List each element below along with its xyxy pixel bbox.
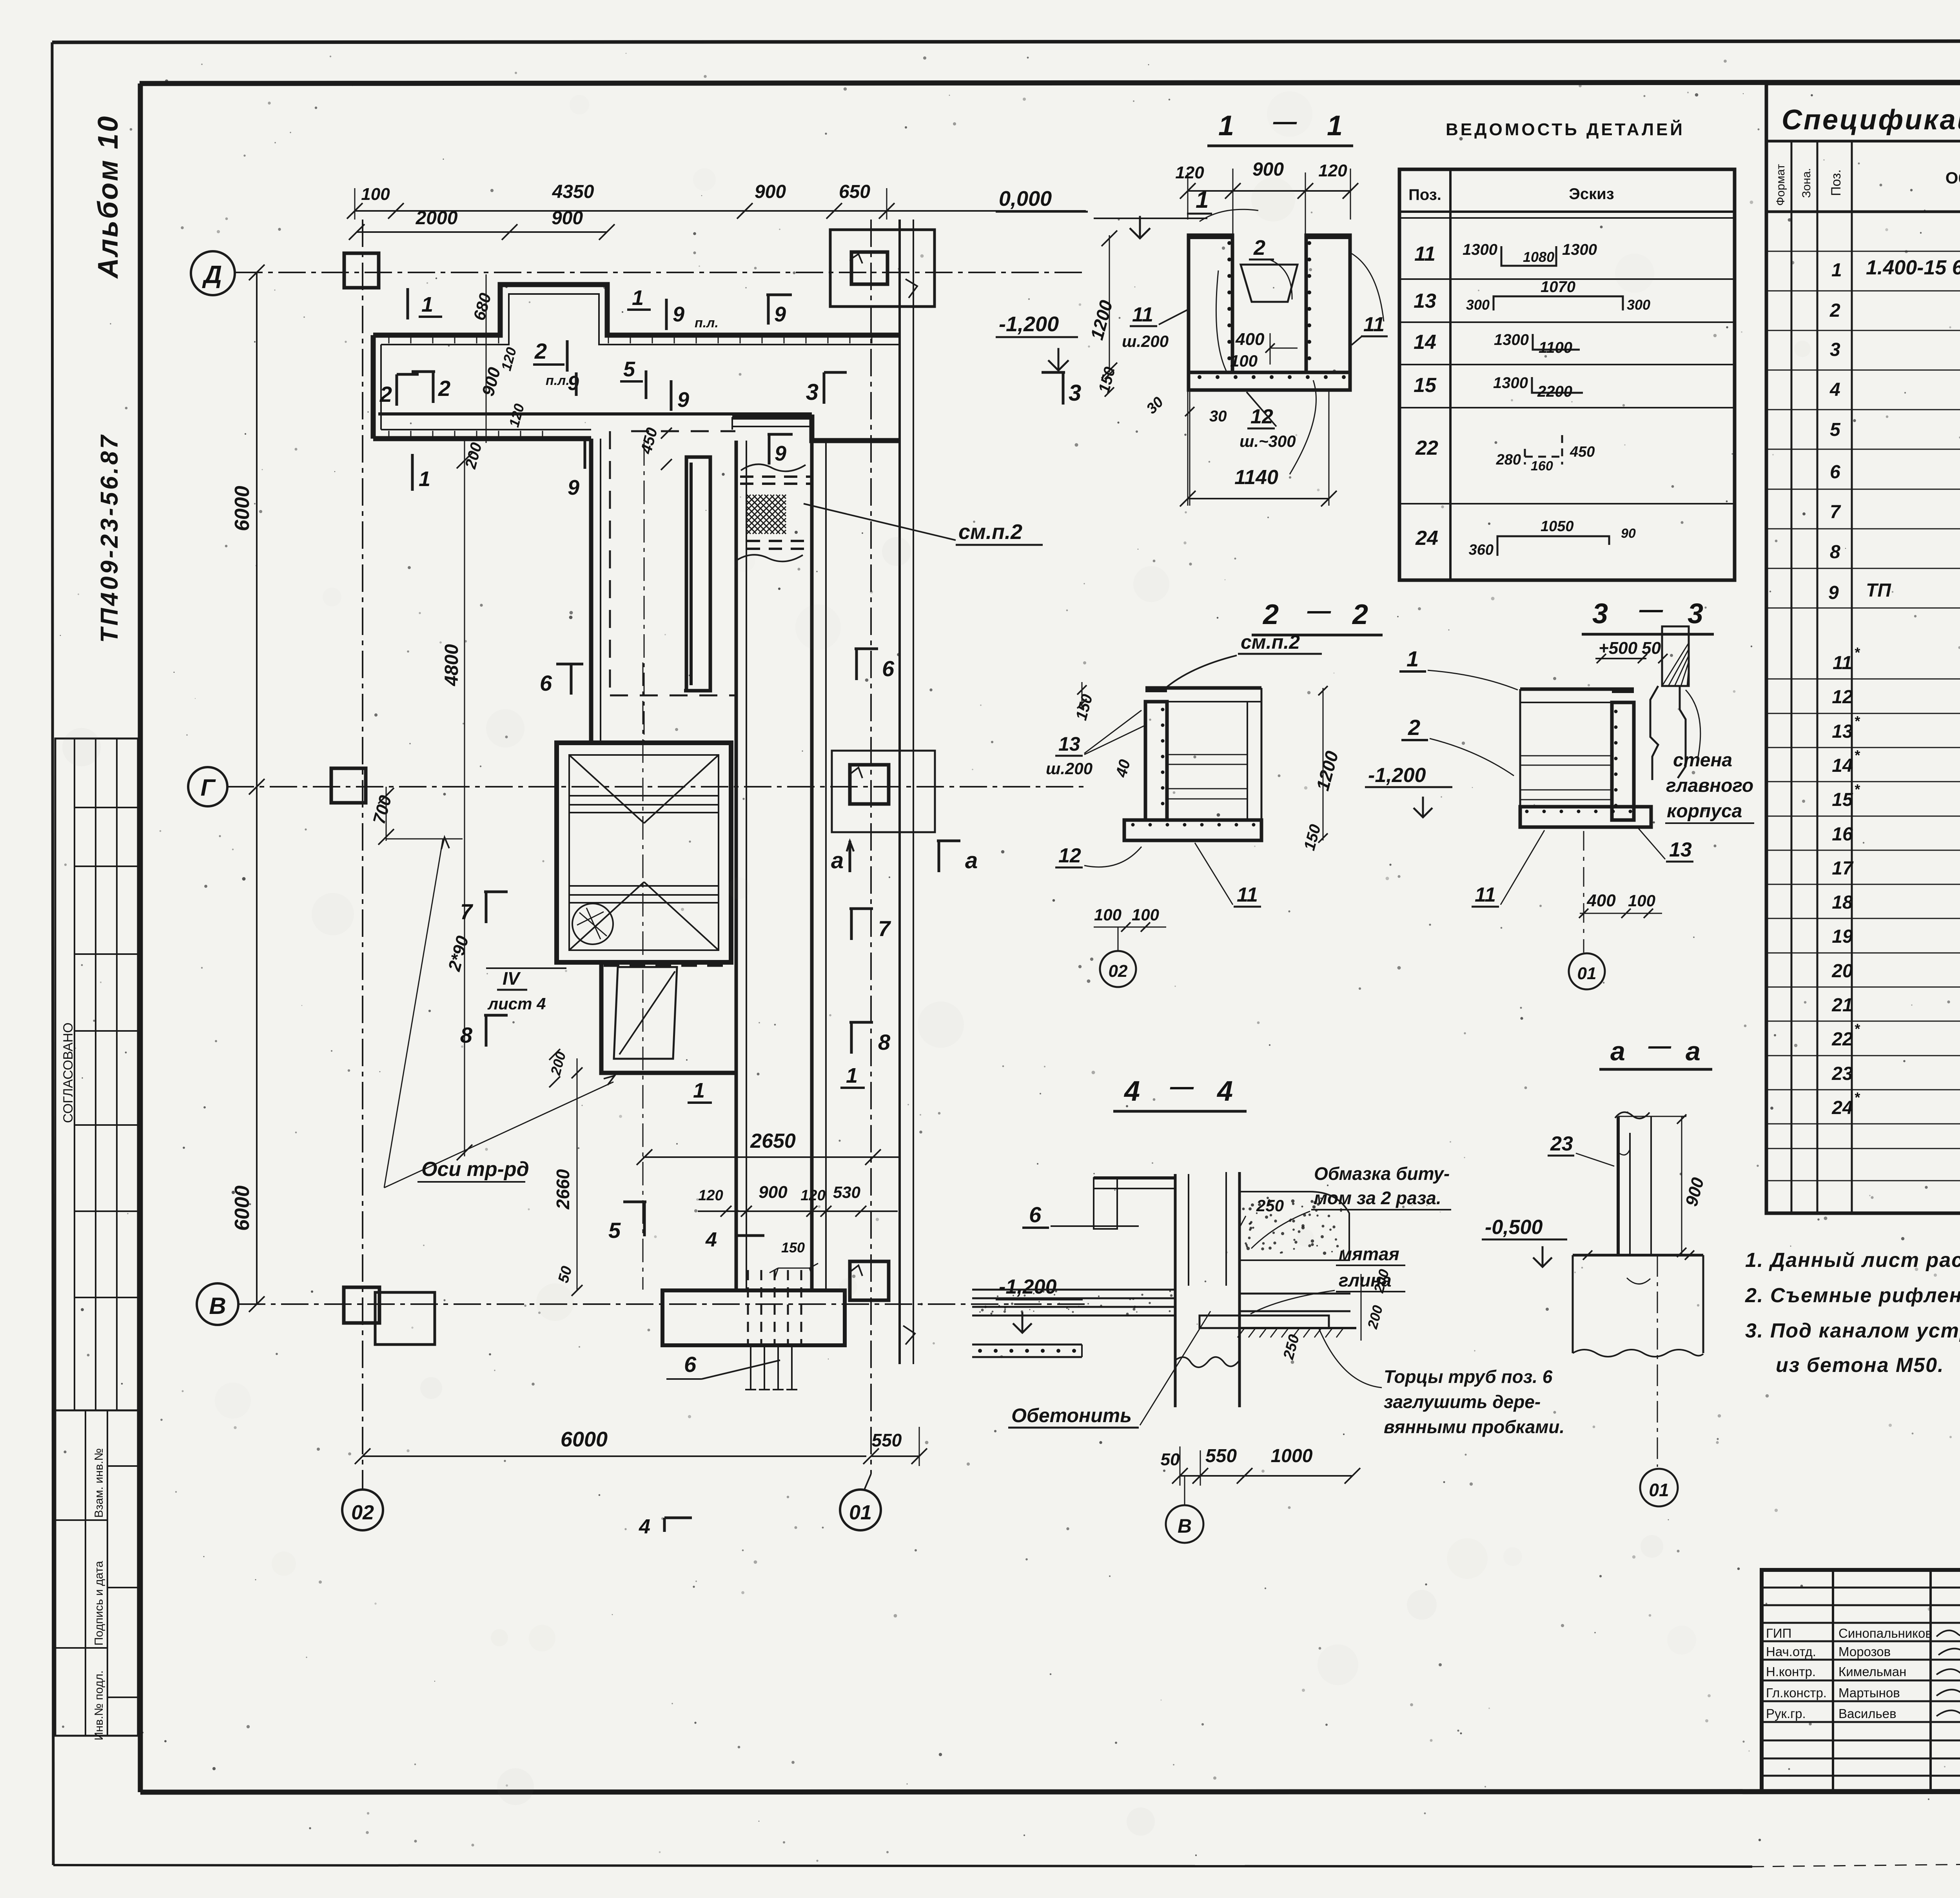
svg-text:8: 8 — [878, 1030, 891, 1054]
svg-text:4350: 4350 — [552, 181, 594, 202]
svg-text:2. Съемные рифленые щиты ра: 2. Съемные рифленые щиты разработаны в ч… — [1745, 1284, 1960, 1307]
flag 9 right below arm — [768, 434, 771, 465]
plan: grid circle 02 — [342, 1490, 383, 1530]
svg-text:*: * — [1854, 644, 1860, 660]
svg-text:см.п.2: см.п.2 — [1241, 631, 1300, 653]
svg-text:100: 100 — [1094, 905, 1122, 924]
svg-text:11: 11 — [1363, 313, 1385, 336]
svg-text:120: 120 — [506, 402, 527, 429]
svg-text:120: 120 — [1175, 163, 1204, 182]
plan: transformer box outer — [557, 743, 731, 962]
svg-text:23: 23 — [1550, 1132, 1573, 1155]
svg-text:*: * — [1854, 781, 1860, 797]
plan: bottom pipe block — [662, 1290, 845, 1345]
signatures squiggles — [1936, 1624, 1960, 1637]
svg-text:22: 22 — [1415, 437, 1438, 459]
plan: transformer diagonals — [569, 755, 644, 823]
svg-text:15: 15 — [1832, 789, 1853, 810]
svg-text:01: 01 — [849, 1501, 872, 1524]
svg-text:23: 23 — [1831, 1063, 1853, 1084]
svg-text:12: 12 — [1058, 844, 1081, 867]
plan: axis circle Г — [188, 767, 227, 806]
svg-text:a: a — [965, 848, 978, 873]
svg-text:50: 50 — [555, 1265, 575, 1285]
plan: channel left end cap — [371, 335, 376, 439]
svg-text:900: 900 — [1252, 159, 1284, 180]
plan: top wall rebar ticks — [388, 336, 390, 343]
svg-text:1: 1 — [846, 1064, 858, 1087]
plan: flag 4 bottom — [664, 1518, 692, 1532]
sidebar stamp table (Инв № подл / Подпись и дата / Взам инв №) — [55, 1410, 138, 1736]
svg-text:Инв.№ подл.: Инв.№ подл. — [93, 1670, 105, 1740]
plan: pit at Г/01 (dashed) — [832, 751, 935, 832]
svg-text:Обмазка биту-: Обмазка биту- — [1314, 1163, 1450, 1184]
plan: grid circle 01 — [840, 1490, 881, 1530]
svg-text:см.п.2: см.п.2 — [958, 520, 1022, 544]
svg-text:Обетонить: Обетонить — [1011, 1404, 1132, 1426]
svg-text:Поз.: Поз. — [1408, 186, 1441, 203]
svg-text:2200: 2200 — [1537, 383, 1572, 400]
svg-text:6: 6 — [1830, 462, 1840, 483]
svg-text:50: 50 — [1161, 1450, 1180, 1469]
svg-text:—: — — [1648, 1033, 1671, 1059]
section 4-4: top slab left — [1094, 1176, 1175, 1179]
svg-text:-1,200: -1,200 — [1368, 764, 1426, 787]
svg-text:4800: 4800 — [441, 644, 462, 686]
svg-text:6000: 6000 — [231, 1185, 254, 1231]
svg-text:19: 19 — [1832, 926, 1853, 947]
svg-text:Н.контр.: Н.контр. — [1766, 1664, 1816, 1679]
svg-text:9: 9 — [568, 476, 579, 499]
svg-text:01: 01 — [1649, 1480, 1669, 1500]
svg-text:360: 360 — [1469, 542, 1494, 558]
flag T2 inside — [432, 372, 435, 403]
svg-text:8: 8 — [460, 1023, 473, 1047]
section 2-2 body — [1145, 686, 1261, 690]
plan: transformer box inner — [569, 755, 719, 950]
svg-text:4: 4 — [639, 1515, 650, 1538]
flag 9 п.л. — [665, 299, 668, 330]
svg-text:стена: стена — [1673, 750, 1732, 771]
svg-text:21: 21 — [1831, 995, 1853, 1016]
svg-text:*: * — [1854, 747, 1860, 763]
flag 9 below arm — [584, 438, 586, 469]
svg-text:6: 6 — [540, 671, 552, 695]
svg-text:300: 300 — [1466, 297, 1490, 313]
svg-text:900: 900 — [478, 365, 504, 398]
svg-text:2650: 2650 — [750, 1130, 796, 1152]
svg-text:3: 3 — [1830, 339, 1840, 360]
svg-text:2000: 2000 — [416, 208, 458, 229]
svg-text:1: 1 — [632, 286, 644, 310]
svg-text:11: 11 — [1833, 653, 1852, 673]
spec header row — [1766, 210, 1960, 213]
svg-text:11: 11 — [1132, 303, 1153, 326]
svg-text:550: 550 — [872, 1430, 902, 1450]
section 1-1: U channel walls — [1189, 235, 1232, 372]
section a-a: tiny ticks on foundation top — [1583, 1250, 1592, 1260]
flag 8 left — [485, 1015, 488, 1047]
svg-text:ш.200: ш.200 — [1046, 759, 1093, 778]
plan: pipe stubs below — [745, 1345, 756, 1390]
svg-text:Оси тр-рд: Оси тр-рд — [421, 1158, 529, 1181]
svg-text:2: 2 — [1829, 300, 1840, 321]
svg-text:200: 200 — [547, 1050, 569, 1077]
svg-text:-0,500: -0,500 — [1485, 1216, 1543, 1239]
svg-text:4: 4 — [1216, 1076, 1233, 1107]
svg-text:Г: Г — [201, 775, 216, 801]
svg-text:40: 40 — [1112, 758, 1134, 779]
plan: building wall double line — [898, 220, 901, 1364]
section 3-3 hatched wall — [1662, 626, 1689, 686]
flag 7 left — [485, 892, 488, 923]
plan: column square top right — [851, 252, 887, 284]
svg-text:7: 7 — [1830, 502, 1841, 523]
plan: vertical axis line 02 — [362, 220, 363, 1474]
svg-text:1100: 1100 — [1539, 339, 1572, 356]
plan dim 4800 — [464, 439, 465, 1156]
svg-text:п.л.: п.л. — [546, 373, 570, 388]
section 3-3 circle 01 — [1569, 953, 1605, 989]
plan: long channel left wall — [735, 441, 738, 1290]
svg-text:120: 120 — [800, 1187, 825, 1204]
plan: slab with diagonal — [614, 967, 677, 1059]
svg-text:заглушить дере-: заглушить дере- — [1384, 1392, 1541, 1412]
svg-text:главного: главного — [1666, 775, 1753, 796]
svg-text:1300: 1300 — [1493, 374, 1528, 392]
svg-text:2: 2 — [534, 339, 547, 363]
flag T7 right — [850, 909, 853, 940]
svg-text:Синопальников: Синопальников — [1838, 1626, 1932, 1640]
svg-text:6000: 6000 — [561, 1428, 608, 1451]
svg-text:3: 3 — [1688, 598, 1703, 630]
svg-text:Эскиз: Эскиз — [1569, 185, 1614, 203]
svg-text:Васильев: Васильев — [1838, 1706, 1896, 1721]
svg-text:Взам. инв.№: Взам. инв.№ — [93, 1448, 105, 1518]
svg-text:Формат: Формат — [1774, 164, 1787, 206]
svg-text:2: 2 — [1352, 599, 1368, 630]
svg-text:1000: 1000 — [1271, 1446, 1313, 1466]
svg-text:*: * — [1854, 713, 1860, 729]
svg-text:1: 1 — [693, 1079, 705, 1102]
svg-text:280: 280 — [1496, 452, 1521, 468]
plan: wavy break line — [741, 464, 806, 471]
svg-text:17: 17 — [1832, 858, 1854, 879]
svg-text:300: 300 — [1627, 297, 1650, 313]
plan: pipes (dashed) — [747, 1270, 749, 1345]
svg-text:Торцы труб поз. 6: Торцы труб поз. 6 — [1384, 1366, 1553, 1387]
vedomost table frame — [1399, 169, 1735, 580]
svg-text:-1,200: -1,200 — [999, 312, 1059, 336]
section a-a: dim 900 — [1681, 1116, 1682, 1254]
plan: axis Г — [227, 786, 1086, 788]
svg-text:1080: 1080 — [1523, 249, 1554, 265]
svg-text:9: 9 — [774, 303, 786, 326]
svg-text:В: В — [209, 1293, 226, 1319]
svg-text:лист 4: лист 4 — [487, 994, 546, 1013]
svg-text:150: 150 — [1073, 692, 1096, 722]
flag T6 right — [855, 649, 858, 680]
svg-text:0,000: 0,000 — [999, 187, 1052, 210]
svg-text:200: 200 — [1364, 1303, 1386, 1331]
svg-text:a: a — [1686, 1036, 1700, 1066]
svg-text:100: 100 — [361, 185, 390, 204]
svg-text:1. Данный лист рассматриват: 1. Данный лист рассматривать совместно с… — [1745, 1249, 1960, 1272]
svg-text:9: 9 — [1828, 582, 1839, 603]
plan: channel top wall outer edge with notch — [373, 285, 899, 335]
svg-text:3: 3 — [1069, 380, 1081, 406]
svg-text:2: 2 — [379, 382, 392, 406]
svg-text:1140: 1140 — [1234, 466, 1278, 489]
svg-text:ТП: ТП — [1866, 580, 1891, 601]
svg-text:100: 100 — [1628, 891, 1655, 910]
svg-text:СОГЛАСОВАНО: СОГЛАСОВАНО — [61, 1023, 76, 1123]
svg-text:30: 30 — [1209, 408, 1227, 425]
svg-text:2: 2 — [1408, 715, 1420, 740]
section 4-4: left floor lines — [972, 1344, 1082, 1346]
svg-text:530: 530 — [833, 1183, 860, 1201]
svg-text:160: 160 — [1531, 459, 1553, 474]
sidebar approval table — [55, 739, 138, 1410]
svg-text:ТП409-23-56.87: ТП409-23-56.87 — [96, 433, 123, 643]
svg-text:2: 2 — [1262, 599, 1279, 630]
svg-text:1300: 1300 — [1494, 331, 1529, 348]
svg-text:1: 1 — [419, 467, 430, 491]
svg-text:16: 16 — [1832, 824, 1853, 845]
svg-text:120: 120 — [498, 345, 519, 372]
plan: channel inner bottom step edge — [378, 412, 812, 416]
svg-text:2: 2 — [438, 376, 450, 401]
inner drawing frame — [140, 82, 1960, 83]
plan bottom dim 6000 — [363, 1455, 866, 1457]
plan: channel bottom edge left part — [373, 436, 591, 441]
svg-text:7: 7 — [878, 916, 891, 941]
svg-text:—: — — [1307, 597, 1331, 624]
plan top dim row1 — [355, 210, 1086, 212]
svg-text:100: 100 — [1230, 352, 1258, 370]
svg-text:400: 400 — [1235, 330, 1265, 349]
plan: column square at Г/02 — [331, 768, 366, 803]
section 4-4 circle В — [1166, 1505, 1203, 1543]
svg-text:24: 24 — [1831, 1098, 1853, 1118]
svg-text:Зона.: Зона. — [1800, 168, 1813, 198]
svg-text:ш.200: ш.200 — [1122, 332, 1169, 350]
spec table outer — [1766, 83, 1960, 1213]
svg-text:450: 450 — [1570, 444, 1595, 460]
section 4-4: speckled concrete zone — [1240, 1192, 1349, 1260]
svg-text:IV: IV — [503, 968, 521, 989]
plan: axis Д horizontal dash-dot line — [235, 272, 1086, 273]
svg-text:1200: 1200 — [1086, 298, 1116, 342]
svg-text:13: 13 — [1414, 290, 1436, 312]
svg-text:5: 5 — [623, 357, 635, 381]
svg-text:650: 650 — [839, 181, 870, 202]
svg-text:01: 01 — [1577, 964, 1597, 983]
flag T8 right — [850, 1022, 853, 1054]
plan: hatch patch см.п.2 — [747, 495, 786, 534]
plan: column square Г/01 — [850, 765, 889, 804]
svg-text:Нач.отд.: Нач.отд. — [1766, 1644, 1816, 1659]
svg-text:6: 6 — [1029, 1202, 1042, 1227]
svg-text:150: 150 — [1301, 822, 1324, 852]
flag 6 left of transformer — [570, 664, 573, 695]
section 4-4: break squiggle on wall — [1175, 1357, 1240, 1367]
svg-text:900: 900 — [755, 181, 786, 202]
section 1-1: left dim 1200 — [1109, 235, 1110, 372]
plan: axis circle Д — [191, 251, 235, 295]
svg-text:13: 13 — [1058, 733, 1080, 755]
svg-text:120: 120 — [698, 1187, 723, 1204]
svg-text:корпуса: корпуса — [1667, 801, 1742, 822]
svg-text:1: 1 — [1327, 110, 1343, 142]
svg-text:1: 1 — [421, 293, 433, 316]
svg-text:8: 8 — [1830, 542, 1840, 563]
svg-text:Гл.констр.: Гл.констр. — [1766, 1686, 1827, 1700]
svg-text:3: 3 — [806, 379, 818, 405]
section 1-1: dim row 120 900 120 — [1188, 190, 1350, 192]
svg-text:1: 1 — [1196, 187, 1209, 213]
section 4-4: wall column — [1174, 1174, 1177, 1407]
svg-text:15: 15 — [1414, 374, 1437, 397]
svg-text:1300: 1300 — [1463, 241, 1497, 258]
plan: vertical axis line 01 — [870, 220, 872, 1474]
plan: centre channel left wall — [589, 439, 593, 743]
svg-text:вянными пробками.: вянными пробками. — [1384, 1417, 1564, 1437]
svg-text:Альбом 10: Альбом 10 — [93, 115, 124, 279]
flag T3 (wall side) — [1062, 372, 1065, 405]
svg-text:13: 13 — [1669, 838, 1692, 861]
svg-text:200: 200 — [462, 441, 485, 471]
svg-text:20: 20 — [1831, 961, 1853, 982]
plan top dim row2 — [357, 231, 607, 233]
svg-text:1: 1 — [1831, 260, 1842, 281]
svg-text:4: 4 — [1829, 379, 1840, 400]
flag 11 below arm — [411, 454, 414, 491]
svg-text:a: a — [831, 848, 844, 873]
plan left vertical dim 6000 x2 — [256, 272, 258, 1304]
svg-text:Кимельман: Кимельман — [1838, 1664, 1906, 1679]
section 1-1: bottom dim 1140 — [1188, 498, 1329, 499]
svg-text:мятая: мятая — [1339, 1244, 1399, 1264]
svg-text:12: 12 — [1832, 687, 1853, 708]
svg-text:14: 14 — [1832, 755, 1853, 776]
title block left rows — [1762, 1587, 1960, 1589]
plan: axis circle В — [197, 1283, 238, 1325]
svg-text:3: 3 — [1592, 598, 1608, 630]
svg-text:6000: 6000 — [231, 486, 254, 531]
plan: channel bottom edge right part — [732, 417, 899, 441]
svg-text:9: 9 — [677, 388, 689, 412]
section 1-1: inner rebar dots — [1227, 241, 1231, 245]
plan: dashed double horizontals (opening) — [740, 475, 812, 478]
plan: axis В — [238, 1303, 1086, 1305]
outer sheet border — [52, 41, 1960, 42]
svg-text:1200: 1200 — [1312, 749, 1342, 793]
svg-text:22: 22 — [1831, 1029, 1853, 1050]
plan: osi tr-ra arrows — [384, 839, 443, 1188]
svg-text:9: 9 — [673, 303, 684, 326]
svg-text:1070: 1070 — [1541, 278, 1575, 296]
svg-text:*: * — [1854, 1021, 1860, 1037]
svg-text:250: 250 — [1256, 1196, 1284, 1215]
svg-text:900: 900 — [759, 1183, 788, 1202]
svg-text:680: 680 — [470, 291, 495, 322]
svg-text:1.400-15 6.1 550-04: 1.400-15 6.1 550-04 — [1866, 256, 1960, 279]
svg-text:400: 400 — [1586, 891, 1616, 910]
section 1-1: cover trapezoid — [1241, 265, 1298, 302]
svg-text:900: 900 — [1682, 1175, 1708, 1208]
flag 1-1 left — [407, 288, 409, 319]
svg-text:14: 14 — [1414, 331, 1436, 354]
svg-text:В: В — [1178, 1515, 1192, 1537]
svg-text:11: 11 — [1475, 884, 1496, 906]
svg-text:п.л.: п.л. — [695, 316, 719, 330]
flag 9 top right — [767, 295, 770, 325]
spec body horizontal lines — [1766, 251, 1960, 252]
plan: column square at В/02 — [344, 1287, 379, 1323]
plan: hatch circle — [572, 904, 613, 944]
plan: channel top wall inner edge — [381, 294, 899, 345]
svg-text:Спецификация на Кл 1: Спецификация на Кл 1 — [1782, 104, 1960, 136]
svg-text:Обозначение: Обозначение — [1945, 169, 1960, 187]
plan: right channel wall (vertical) — [810, 441, 814, 1290]
svg-text:2: 2 — [1253, 236, 1265, 259]
svg-text:1: 1 — [1218, 110, 1234, 142]
svg-text:ГИП: ГИП — [1766, 1626, 1791, 1640]
plan: pipe leader 6 — [702, 1360, 780, 1379]
svg-text:550: 550 — [1205, 1446, 1237, 1466]
plan: column square В/01 — [850, 1261, 889, 1300]
svg-text:6: 6 — [882, 656, 895, 681]
plan: top right pit — [830, 230, 935, 307]
svg-text:1050: 1050 — [1541, 518, 1574, 535]
section a-a: axis line + circle 01 — [1657, 1255, 1658, 1467]
section 3-3 wall bracket — [1650, 686, 1658, 780]
svg-text:02: 02 — [351, 1501, 374, 1524]
svg-text:мом за 2 раза.: мом за 2 раза. — [1314, 1188, 1441, 1208]
svg-text:9: 9 — [775, 442, 786, 465]
flag 9 mid — [670, 380, 673, 411]
svg-text:Мартынов: Мартынов — [1838, 1686, 1900, 1700]
plan: pit step below transformer — [601, 962, 736, 1073]
svg-text:2*90: 2*90 — [445, 934, 472, 974]
svg-text:11: 11 — [1414, 243, 1436, 265]
svg-text:5: 5 — [1830, 419, 1841, 440]
svg-text:Подпись и дата: Подпись и дата — [93, 1561, 105, 1646]
plan: opening dashed edge below transformer — [604, 964, 730, 967]
section 3-3 body — [1520, 688, 1634, 691]
svg-text:Рук.гр.: Рук.гр. — [1766, 1706, 1806, 1721]
svg-text:150: 150 — [781, 1239, 805, 1256]
svg-text:6: 6 — [684, 1352, 697, 1377]
svg-text:250: 250 — [1280, 1333, 1303, 1361]
plan: column square at Д/02 — [344, 253, 379, 288]
plan bottom dim 550 — [871, 1455, 919, 1457]
section 1-1: leader curves — [1200, 209, 1258, 221]
svg-text:a: a — [1610, 1036, 1625, 1066]
svg-text:100: 100 — [1132, 905, 1159, 924]
flag Ta right — [938, 841, 940, 872]
svg-text:1: 1 — [1406, 646, 1419, 671]
svg-text:18: 18 — [1832, 892, 1853, 913]
section 4-4: ground line with hatch — [1240, 1327, 1356, 1329]
svg-text:2660: 2660 — [553, 1169, 573, 1210]
plan dim row 120 900 120 530 — [698, 1210, 898, 1212]
svg-text:—: — — [1639, 596, 1663, 622]
svg-text:—: — — [1170, 1073, 1194, 1100]
svg-text:4: 4 — [705, 1228, 717, 1251]
plan: transformer band lines — [569, 795, 719, 797]
